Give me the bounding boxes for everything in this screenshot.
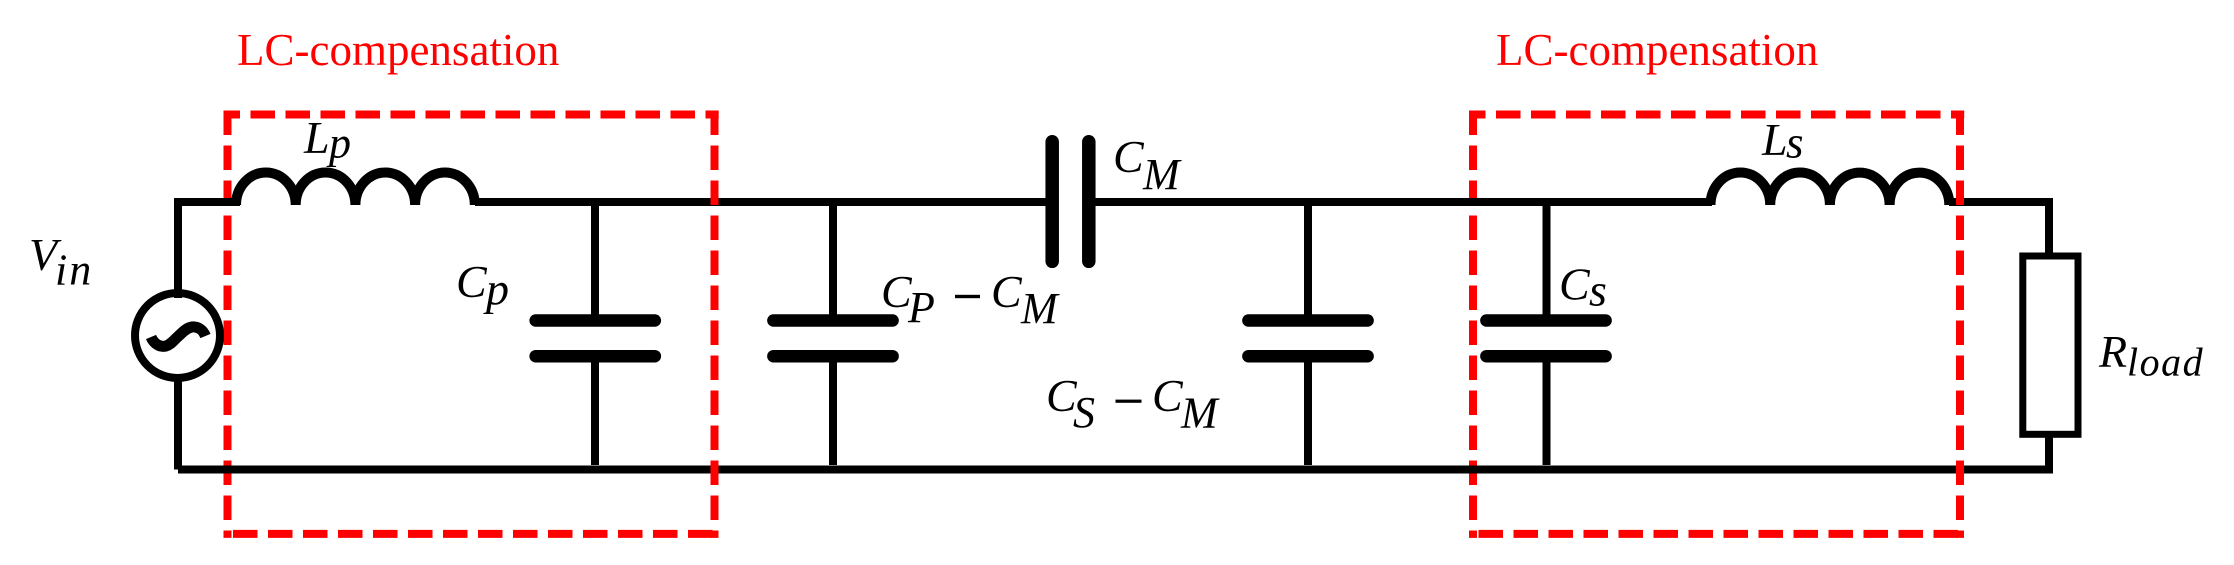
wire Cp-Cm branch top — [829, 202, 837, 318]
wire left vertical bottom — [174, 378, 182, 470]
svg-text:M: M — [1142, 150, 1182, 199]
svg-text:s: s — [1786, 118, 1804, 168]
svg-text:C: C — [1152, 370, 1184, 421]
svg-text:C: C — [991, 266, 1023, 317]
resistor Rload — [2023, 256, 2078, 434]
capacitor Cs — [1486, 321, 1605, 357]
label Cp — [456, 256, 509, 315]
svg-text:in: in — [55, 246, 93, 295]
capacitor Cs-Cm — [1248, 321, 1367, 357]
label Ls — [1761, 114, 1804, 168]
svg-text:M: M — [1180, 389, 1220, 438]
wire top rail Lp to CM left plate — [475, 198, 1046, 206]
label Rload — [2098, 326, 2204, 385]
svg-text:p: p — [326, 119, 351, 168]
svg-text:S: S — [1073, 388, 1095, 437]
label Lp — [303, 112, 351, 168]
wire Cp branch bottom — [591, 359, 599, 465]
svg-text:C: C — [456, 256, 488, 307]
svg-text:R: R — [2098, 326, 2127, 377]
wire left vertical top and corner — [178, 202, 240, 298]
label Cs - Cm — [1046, 370, 1220, 438]
label Cs — [1559, 259, 1607, 316]
wire Cp-Cm branch bottom — [829, 359, 837, 465]
capacitor Cp — [536, 321, 655, 357]
red dashed box right: right edge (drawn over wires) — [1956, 111, 1964, 538]
voltage source Vin — [135, 293, 220, 378]
wire top rail Ls to load corner — [1949, 202, 2049, 256]
wire top rail CM right plate to Ls — [1095, 198, 1712, 206]
svg-text:L: L — [303, 112, 330, 163]
inductor Lp — [236, 173, 475, 206]
label CM — [1113, 131, 1182, 199]
svg-text:L: L — [1761, 114, 1788, 165]
svg-text:C: C — [1559, 259, 1591, 310]
capacitor Cp-Cm — [773, 321, 892, 357]
wire Cs branch bottom — [1543, 359, 1551, 465]
title LC-compensation right — [1496, 25, 1818, 75]
svg-text:load: load — [2127, 340, 2204, 385]
red dashed box left: right edge (drawn over wires) — [711, 111, 719, 538]
svg-text:C: C — [1113, 131, 1145, 182]
svg-text:M: M — [1020, 284, 1060, 333]
red dashed box LC-compensation left — [224, 111, 719, 538]
wire Cp branch top — [591, 202, 599, 318]
wire load bottom — [178, 434, 2049, 470]
svg-text:s: s — [1589, 265, 1607, 316]
wire Cs-Cm branch bottom — [1304, 359, 1312, 465]
wire Cs-Cm branch top — [1304, 202, 1312, 318]
wire Cs branch top — [1543, 202, 1551, 318]
capacitor CM series — [1052, 142, 1089, 261]
inductor Ls — [1710, 173, 1949, 206]
label Cp - Cm — [881, 266, 1060, 333]
svg-text:LC-compensation: LC-compensation — [1496, 25, 1818, 75]
label Vin — [29, 229, 93, 295]
title LC-compensation left — [237, 25, 559, 75]
svg-text:LC-compensation: LC-compensation — [237, 25, 559, 75]
svg-text:P: P — [907, 283, 935, 332]
svg-text:p: p — [483, 264, 509, 315]
red dashed box LC-compensation right — [1469, 111, 1964, 538]
